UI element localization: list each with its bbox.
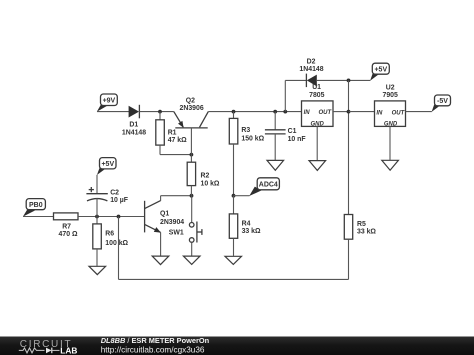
svg-text:+5V: +5V (374, 66, 387, 73)
junction node R1/top rail (158, 110, 162, 114)
ground below U1 (309, 161, 326, 171)
junction node R2 bottom / SW1 (190, 194, 194, 198)
wire +9V to D1 (97, 111, 129, 113)
svg-text:10 µF: 10 µF (110, 197, 128, 204)
svg-text:10 kΩ: 10 kΩ (201, 181, 220, 188)
svg-text:R3: R3 (241, 127, 250, 134)
node +5V flag (right) (370, 63, 389, 80)
svg-text:PB0: PB0 (29, 202, 43, 209)
junction node Q2 base / R2 top (190, 153, 194, 157)
wire Q1 collector to R2 node (161, 195, 192, 197)
svg-text:DL8BB / ESR METER PowerOn: DL8BB / ESR METER PowerOn (101, 336, 210, 345)
wire R3 bottom to R4 node (233, 144, 235, 196)
svg-text:OUT: OUT (392, 111, 406, 117)
svg-text:GND: GND (384, 122, 398, 128)
resistor R5 33 k (344, 215, 376, 240)
wire Q2 collector to U1 IN (208, 111, 301, 113)
wire U1 OUT to +5V vertical (333, 111, 349, 113)
ground below SW1 (183, 256, 200, 264)
op-amp U1 7805 regulator (302, 84, 334, 128)
svg-text:1N4148: 1N4148 (122, 130, 146, 137)
svg-text:150 kΩ: 150 kΩ (241, 135, 264, 142)
node ADC4 flag (249, 178, 279, 196)
svg-text:http://circuitlab.com/cgx3u36: http://circuitlab.com/cgx3u36 (101, 346, 205, 355)
wire U2 GND down (389, 126, 391, 159)
node +5V flag (left) (97, 158, 116, 175)
svg-text:33 kΩ: 33 kΩ (357, 228, 376, 235)
resistor R7 470 ohm (54, 213, 79, 238)
wire U2 IN (349, 111, 375, 113)
svg-text:LAB: LAB (60, 345, 77, 355)
svg-text:D1: D1 (129, 121, 138, 128)
wire stub to ADC4 (234, 195, 250, 197)
wire R5 bottom to bottom rail (348, 239, 350, 279)
junction node R3/R4/ADC4 (232, 194, 236, 198)
svg-text:2N3904: 2N3904 (160, 219, 184, 226)
ground below C1 (267, 160, 284, 170)
svg-text:+9V: +9V (103, 97, 116, 104)
svg-text:-5V: -5V (437, 98, 448, 105)
capacitor C1 10 nF (265, 112, 306, 160)
wire U2 OUT to -5V flag (406, 111, 432, 113)
transistor Q1 2N3904 (NPN) (145, 196, 185, 256)
svg-text:IN: IN (376, 111, 383, 117)
svg-text:C2: C2 (110, 190, 119, 197)
svg-text:1N4148: 1N4148 (299, 66, 323, 73)
wire D2 cathode to +5V node (317, 79, 371, 81)
resistor R2 10 k (187, 155, 220, 196)
node -5V flag (432, 95, 451, 112)
capacitor C2 10 uF polarized (86, 175, 128, 217)
wire D2 branch vertical (284, 80, 286, 111)
svg-text:OUT: OUT (319, 110, 333, 116)
transistor Q2 2N3906 (PNP) (174, 98, 209, 155)
node +9V flag (97, 94, 118, 112)
svg-text:2N3906: 2N3906 (180, 105, 204, 112)
op-amp U2 7905 regulator (375, 85, 406, 128)
svg-text:470 Ω: 470 Ω (59, 231, 78, 238)
svg-text:D2: D2 (307, 58, 316, 65)
CircuitLab logo (19, 339, 78, 355)
wire bottom rail (119, 278, 349, 280)
wire PB0 to R7 (23, 216, 54, 218)
ground below U2 (382, 160, 399, 170)
junction node R3 top (232, 110, 236, 114)
svg-text:100 kΩ: 100 kΩ (105, 240, 128, 247)
svg-text:ADC4: ADC4 (259, 182, 278, 189)
svg-text:R5: R5 (357, 221, 366, 228)
wire U1 GND down (316, 126, 318, 160)
junction node +5V rail (347, 79, 351, 83)
junction node D2 branch (283, 110, 287, 114)
wire D2 anode rail left (285, 79, 306, 81)
svg-text:IN: IN (304, 110, 311, 116)
junction node bottom-rail branch (117, 215, 121, 219)
junction node C1 top (273, 110, 277, 114)
svg-text:R2: R2 (201, 173, 210, 180)
wire branch down to bottom rail (118, 217, 120, 280)
junction node C2/R6 (95, 215, 99, 219)
wire R7 to Q1 base (78, 216, 145, 218)
svg-text:7805: 7805 (309, 92, 324, 99)
resistor R6 100 k (93, 217, 129, 266)
svg-text:R4: R4 (242, 220, 251, 227)
diode D2 1N4148 (299, 58, 323, 87)
svg-text:R7: R7 (62, 224, 71, 231)
resistor R3 150 k (229, 112, 264, 144)
svg-text:Q2: Q2 (186, 98, 195, 105)
diode D1 1N4148 (122, 105, 146, 137)
ground below R6 (89, 266, 106, 274)
ground below Q1 emitter (152, 256, 169, 265)
svg-text:C1: C1 (288, 128, 297, 135)
svg-text:7905: 7905 (383, 92, 398, 99)
svg-text:SW1: SW1 (169, 229, 184, 236)
svg-text:U2: U2 (386, 85, 395, 92)
junction node U1 OUT (347, 110, 351, 114)
footer bar (0, 337, 474, 355)
svg-text:47 kΩ: 47 kΩ (168, 137, 187, 144)
svg-text:33 kΩ: 33 kΩ (242, 228, 261, 235)
node PB0 flag (23, 199, 46, 217)
switch SW1 (169, 196, 202, 256)
svg-text:+5V: +5V (101, 161, 114, 168)
svg-text:10 nF: 10 nF (288, 136, 306, 143)
resistor R1 47 k (156, 112, 187, 155)
ground below R4 (225, 256, 242, 264)
svg-text:R6: R6 (105, 231, 114, 238)
wire D1 to Q2 emitter (139, 111, 173, 113)
wire +5V node down to U1 OUT / U2 IN (348, 80, 350, 214)
wire R1 bottom to Q2 base node (160, 154, 191, 156)
svg-text:U1: U1 (312, 84, 321, 91)
svg-text:R1: R1 (168, 129, 177, 136)
svg-text:Q1: Q1 (160, 211, 169, 218)
resistor R4 33 k (229, 196, 261, 256)
